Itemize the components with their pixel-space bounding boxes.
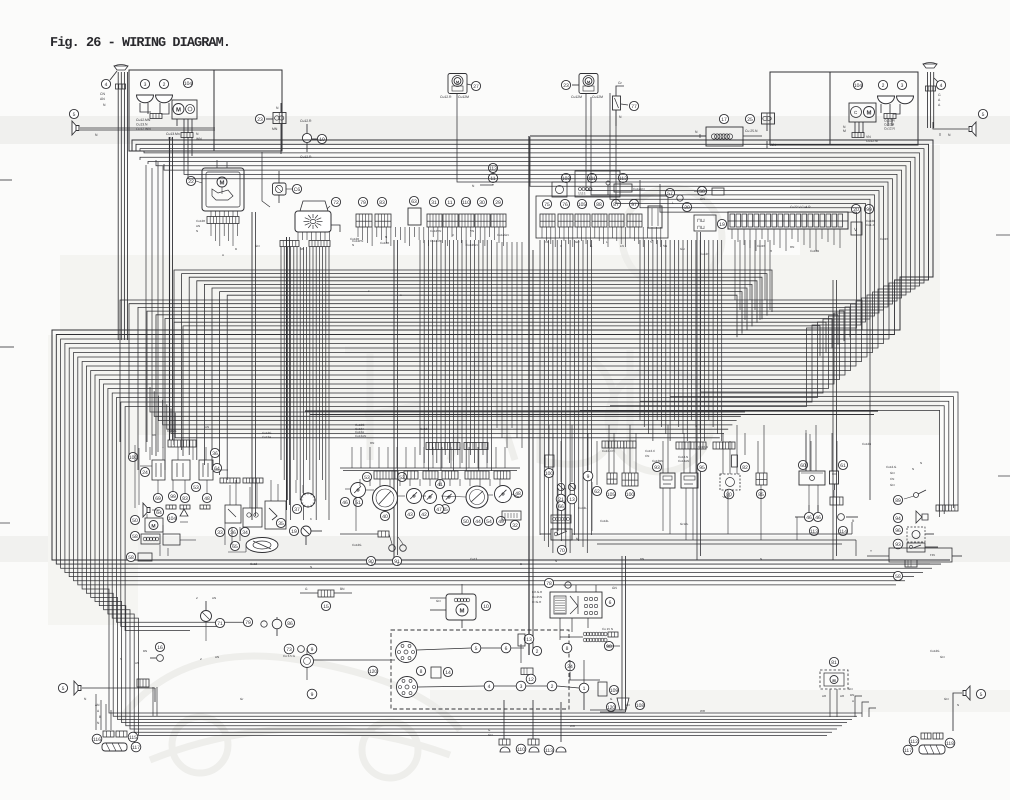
box 60	[798, 460, 807, 469]
svg-text:13: 13	[569, 497, 575, 503]
svg-text:27: 27	[473, 84, 479, 90]
wire relay row outputs	[557, 488, 559, 531]
svg-text:109: 109	[610, 688, 619, 694]
fuse 3	[199, 460, 213, 480]
device 32	[502, 511, 521, 520]
frame divider right	[829, 72, 831, 145]
strip pin drops	[731, 229, 733, 239]
wire 22 leads up	[216, 160, 218, 168]
svg-text:90: 90	[368, 559, 374, 565]
underlay right mass	[800, 145, 940, 390]
wiper motor box right	[849, 103, 876, 122]
svg-text:Cu4R: Cu4R	[757, 244, 766, 248]
svg-text:GN: GN	[680, 247, 685, 251]
frame 103 group	[575, 171, 620, 197]
svg-text:57: 57	[667, 191, 673, 197]
node 20 strip	[851, 204, 860, 213]
svg-text:54: 54	[486, 519, 492, 525]
svg-text:BN: BN	[340, 587, 345, 591]
lamp 3 left	[140, 79, 149, 88]
switch 72 body	[295, 211, 331, 232]
svg-text:23: 23	[563, 83, 569, 89]
wire BL vert pair	[152, 687, 154, 716]
wire 23-circle	[572, 84, 579, 86]
svg-text:3: 3	[901, 83, 904, 89]
wire 24 81	[570, 672, 600, 680]
device 66 resistors	[694, 215, 716, 231]
svg-text:6: 6	[609, 600, 612, 606]
device aux box	[163, 534, 180, 545]
wire horn4 lead	[110, 71, 117, 80]
wire heater leads	[461, 584, 463, 594]
fuse strip pins	[730, 214, 735, 227]
wire right column bundle	[700, 392, 958, 505]
svg-text:64: 64	[214, 466, 220, 472]
switch 35 big	[265, 501, 286, 529]
node 104 right	[853, 80, 862, 89]
svg-text:117: 117	[904, 748, 912, 754]
node 112	[618, 173, 627, 182]
svg-text:99: 99	[170, 494, 176, 500]
svg-text:BN: BN	[640, 557, 644, 561]
valve 94	[893, 513, 902, 522]
svg-text:N: N	[555, 559, 557, 563]
resistor 98	[583, 632, 587, 636]
svg-text:⌇⌇⌇⌇: ⌇⌇⌇⌇	[578, 191, 586, 196]
steering column oval 65	[246, 538, 278, 553]
wire pair right mid	[832, 280, 834, 560]
svg-text:Cu12GN: Cu12GN	[466, 243, 478, 247]
svg-text:104: 104	[184, 81, 193, 87]
node 36 LL	[210, 448, 219, 457]
svg-text:Fig. 26 - WIRING DIAGRAM.: Fig. 26 - WIRING DIAGRAM.	[50, 36, 230, 51]
node 20 small	[682, 202, 691, 211]
svg-text:91: 91	[394, 559, 400, 565]
svg-text:Cx13.B: Cx13.B	[698, 445, 708, 449]
wire left edge stubs	[0, 179, 12, 181]
wiper motor box left	[172, 100, 197, 119]
node 103	[561, 173, 570, 182]
wire pair node57	[696, 232, 698, 560]
connector 87	[611, 199, 620, 208]
wire pair alternator	[621, 556, 623, 710]
svg-text:30: 30	[479, 200, 485, 206]
svg-text:58: 58	[895, 574, 901, 580]
svg-text:3: 3	[144, 82, 147, 88]
svg-text:36: 36	[212, 451, 218, 457]
distributor side	[397, 677, 418, 698]
svg-text:Cu12B: Cu12B	[810, 249, 819, 253]
device 117 BL	[102, 743, 127, 751]
device 15	[318, 590, 334, 597]
svg-text:104: 104	[854, 83, 863, 89]
svg-text:BN: BN	[300, 247, 304, 251]
svg-text:58: 58	[128, 555, 134, 561]
device 82	[740, 462, 749, 471]
wire bundle V4	[639, 240, 641, 420]
wire C6 leads	[278, 171, 280, 183]
svg-text:Cu12VN: Cu12VN	[430, 239, 441, 243]
svg-text:Cu12.MN: Cu12.MN	[136, 118, 151, 122]
svg-text:61: 61	[840, 463, 846, 469]
svg-text:CN: CN	[645, 454, 649, 458]
svg-text:Cx.25N: Cx.25N	[532, 595, 542, 599]
svg-text:12: 12	[528, 677, 534, 683]
wire heavy pair left	[169, 137, 171, 440]
node 100 R	[544, 468, 553, 477]
resistor 13	[518, 634, 525, 646]
svg-text:BN: BN	[143, 649, 147, 653]
svg-text:72: 72	[333, 200, 339, 206]
svg-text:50: 50	[463, 519, 469, 525]
svg-text:97: 97	[631, 202, 637, 208]
lamp 2 right	[878, 80, 887, 89]
wire 81 drops	[829, 689, 831, 717]
nodes row LL	[153, 493, 162, 502]
speaker 5 right	[969, 122, 976, 136]
svg-text:Cu12M: Cu12M	[458, 95, 469, 99]
connector block horn right	[926, 86, 936, 91]
wire lamp drops	[140, 103, 151, 112]
svg-text:112: 112	[910, 739, 918, 745]
svg-text:GN: GN	[890, 483, 895, 487]
wire ign	[311, 530, 322, 532]
motor 50	[130, 515, 139, 524]
svg-text:17: 17	[721, 117, 727, 123]
wire bundle V3	[539, 240, 541, 535]
wire 17 right	[743, 135, 762, 137]
connector 6 tall	[648, 206, 662, 228]
svg-text:44: 44	[475, 519, 481, 525]
connector 63 tall	[409, 196, 418, 205]
frame right connector group	[536, 196, 668, 238]
ignition coil	[301, 655, 314, 668]
svg-text:LO.G.R: LO.G.R	[532, 590, 543, 594]
wire 72 drops	[297, 232, 299, 240]
svg-text:32: 32	[512, 523, 518, 529]
svg-text:Cu12: Cu12	[250, 562, 258, 566]
wire gauge links	[366, 489, 374, 491]
svg-text:46: 46	[806, 515, 812, 521]
svg-text:Cu12G: Cu12G	[352, 543, 362, 547]
svg-text:Cu12GN: Cu12GN	[497, 233, 509, 237]
connector 58b	[905, 560, 917, 567]
wire BR risers	[855, 696, 862, 717]
svg-text:43: 43	[407, 512, 413, 518]
svg-text:29: 29	[495, 200, 501, 206]
node 72	[331, 197, 340, 206]
svg-text:82: 82	[742, 465, 748, 471]
connector strip 22	[207, 217, 239, 224]
svg-text:70: 70	[559, 548, 565, 554]
node 27	[471, 81, 480, 90]
svg-text:WR: WR	[570, 724, 576, 728]
switch 70	[551, 529, 572, 540]
device 25	[745, 114, 754, 123]
svg-text:73: 73	[286, 647, 292, 653]
node 104 LL	[167, 513, 176, 522]
box 61	[838, 460, 847, 469]
lamp symbol 73-9	[298, 646, 305, 653]
svg-text:5: 5	[980, 692, 983, 698]
lamp 21	[557, 483, 564, 490]
wire 27-circle	[467, 84, 471, 85]
svg-text:8: 8	[566, 646, 569, 652]
svg-text:Cu12B: Cu12B	[862, 442, 871, 446]
svg-text:Cu13BN: Cu13BN	[652, 459, 663, 463]
svg-text:Cu13.N: Cu13.N	[136, 123, 148, 127]
wire BL drops	[95, 694, 97, 730]
node 111	[587, 173, 596, 182]
svg-text:24: 24	[142, 470, 148, 476]
speedometer 40	[373, 486, 398, 511]
gauge 42	[424, 491, 437, 504]
svg-text:AN: AN	[205, 425, 209, 429]
svg-text:Cu12M: Cu12M	[592, 95, 603, 99]
speaker 5 BL	[74, 681, 81, 695]
svg-text:Cu13A: Cu13A	[262, 435, 271, 439]
nodes 90 91	[366, 556, 375, 565]
wire speaker BL	[82, 687, 155, 689]
connector strips upper cluster	[426, 443, 460, 450]
svg-text:1: 1	[583, 686, 586, 692]
switch 89	[893, 495, 902, 504]
svg-text:33: 33	[217, 530, 223, 536]
wire plugs drop	[503, 700, 505, 739]
wire regulator drops	[559, 618, 561, 640]
bulb 71	[201, 611, 212, 622]
connector 100b R	[622, 473, 638, 486]
svg-text:M: M	[460, 607, 465, 614]
gauge 49	[495, 486, 512, 503]
fuel gauge 47	[466, 486, 488, 508]
svg-text:77: 77	[631, 104, 637, 110]
svg-text:25: 25	[747, 117, 753, 123]
switch 33	[225, 505, 241, 523]
scan tint band 1	[0, 116, 1010, 144]
svg-text:83: 83	[379, 200, 385, 206]
wire 22 drops	[210, 211, 212, 217]
svg-text:79: 79	[360, 200, 366, 206]
flasher 81 dashed	[820, 670, 848, 689]
svg-text:93: 93	[654, 465, 660, 471]
svg-text:N: N	[310, 565, 312, 569]
svg-text:CN: CN	[890, 477, 894, 481]
svg-text:2: 2	[163, 82, 166, 88]
svg-text:Z: Z	[196, 596, 198, 600]
wire dashed box rows	[417, 648, 471, 650]
device 117 BR	[919, 745, 945, 754]
svg-text:35: 35	[278, 521, 284, 527]
wire 70 leads	[540, 533, 551, 535]
svg-text:88: 88	[596, 202, 602, 208]
frame headlamp left	[129, 70, 282, 151]
svg-text:AN: AN	[100, 97, 105, 101]
node 99 strip	[864, 204, 873, 213]
svg-text:CN: CN	[100, 92, 105, 96]
svg-text:11: 11	[447, 200, 452, 206]
svg-text:36: 36	[230, 530, 236, 536]
wiper motor 22 inner	[217, 177, 227, 187]
svg-text:13: 13	[526, 637, 532, 643]
svg-text:104: 104	[168, 516, 177, 522]
svg-text:AN: AN	[215, 655, 219, 659]
svg-text:9: 9	[311, 647, 314, 653]
svg-text:47: 47	[436, 507, 442, 513]
connector strip right col	[936, 505, 958, 511]
svg-text:5: 5	[73, 112, 76, 118]
svg-text:Cu12.WN: Cu12.WN	[136, 127, 151, 131]
connector 110	[461, 197, 470, 206]
svg-text:AN: AN	[196, 224, 200, 228]
wire 23L	[266, 118, 273, 120]
svg-text:10: 10	[483, 604, 489, 610]
node 23	[561, 80, 570, 89]
svg-text:60: 60	[800, 463, 806, 469]
node 24 LL	[140, 467, 149, 476]
connector strips under fuses	[220, 478, 240, 483]
svg-text:Z: Z	[200, 657, 202, 661]
svg-text:48: 48	[204, 496, 210, 502]
amp 80 dashed	[720, 474, 740, 490]
svg-text:95: 95	[699, 465, 705, 471]
svg-text:93: 93	[895, 542, 901, 548]
device 58 resistor	[130, 531, 139, 540]
svg-text:M: M	[151, 523, 155, 529]
watermark	[120, 188, 722, 778]
scan tint band 2	[0, 536, 1010, 562]
svg-text:Cu 15 N: Cu 15 N	[602, 627, 613, 631]
svg-text:Cu12.N: Cu12.N	[884, 127, 896, 131]
svg-text:3: 3	[520, 684, 523, 690]
speaker 5 BR	[963, 686, 970, 700]
frame right col	[889, 548, 952, 562]
svg-text:4: 4	[940, 83, 943, 89]
nodes 46 46 113 114	[804, 512, 813, 521]
svg-text:16: 16	[157, 645, 163, 651]
wire 77 up	[616, 86, 624, 96]
speaker 64	[143, 503, 150, 517]
svg-text:⊓⊔: ⊓⊔	[697, 225, 705, 231]
node 57	[665, 188, 674, 197]
wire right lamp to ground	[887, 119, 889, 127]
wire lowerleft mesh	[146, 514, 148, 518]
node 62	[592, 486, 601, 495]
wire 25 drop	[766, 124, 768, 131]
connector 79	[358, 197, 367, 206]
svg-text:115: 115	[129, 735, 137, 741]
svg-text:19: 19	[291, 529, 297, 535]
svg-text:79: 79	[245, 620, 251, 626]
wire bundle V1 switch72 drops	[280, 247, 282, 460]
wire band C	[120, 300, 862, 442]
svg-text:C+G.R: C+G.R	[532, 600, 542, 604]
svg-text:53: 53	[193, 485, 199, 491]
svg-text:4: 4	[105, 82, 108, 88]
svg-text:N: N	[957, 703, 959, 707]
scan tint band 3	[430, 690, 1010, 712]
connector 30	[477, 197, 486, 206]
switch 93b	[893, 539, 903, 549]
svg-text:Cu12A: Cu12A	[420, 427, 429, 431]
svg-text:23: 23	[257, 117, 263, 123]
node 56	[697, 186, 706, 195]
svg-text:Cu12R: Cu12R	[380, 241, 390, 245]
connector eq box	[137, 679, 149, 687]
connector strip gauges	[374, 471, 398, 479]
wire horn4 right lead	[934, 78, 938, 82]
svg-text:4: 4	[488, 684, 491, 690]
svg-text:Cu13.Mn: Cu13.Mn	[166, 132, 180, 136]
wire bundle strip drops	[734, 240, 736, 300]
connector block right lamps	[884, 114, 896, 119]
svg-text:75: 75	[544, 202, 550, 208]
wire speaker BR	[953, 693, 962, 731]
svg-text:GN: GN	[488, 733, 493, 737]
nodes in dashed box	[471, 643, 481, 653]
svg-text:42: 42	[421, 512, 427, 518]
svg-text:LN: LN	[620, 244, 624, 248]
relay 95	[697, 462, 706, 471]
wire bundle V2b	[496, 242, 498, 428]
svg-text:Cu13.C: Cu13.C	[645, 449, 656, 453]
device 66b coil	[556, 501, 565, 510]
connector strip fusebox	[168, 440, 196, 447]
wire main harness loop	[52, 140, 950, 560]
wire speaker5 right	[933, 122, 968, 129]
svg-text:99: 99	[866, 207, 872, 213]
svg-text:M: M	[843, 129, 846, 133]
svg-text:Cu13AN: Cu13AN	[355, 434, 366, 438]
svg-text:Cu12VN: Cu12VN	[430, 229, 441, 233]
switch 36b	[243, 508, 262, 527]
svg-text:Gr12L: Gr12L	[680, 522, 689, 526]
svg-text:GN: GN	[625, 703, 630, 707]
connector 83	[377, 197, 386, 206]
svg-text:RN: RN	[370, 441, 374, 445]
svg-text:Cu12R: Cu12R	[350, 237, 360, 241]
underlay central block	[60, 255, 940, 435]
svg-text:117: 117	[132, 745, 140, 751]
svg-text:"AMP": "AMP"	[722, 495, 731, 499]
svg-text:Cu12.R: Cu12.R	[440, 95, 452, 99]
device C6	[273, 183, 287, 195]
connector 76	[560, 199, 569, 208]
svg-text:M: M	[176, 106, 181, 113]
svg-text:31: 31	[431, 200, 437, 206]
svg-text:2: 2	[536, 649, 539, 655]
ignition 19	[301, 526, 311, 536]
device 96 dashed	[893, 525, 902, 534]
node 64 LL	[212, 463, 221, 472]
svg-text:GN: GN	[255, 244, 260, 248]
svg-text:69: 69	[155, 496, 161, 502]
node 9 R	[583, 471, 593, 481]
node 78	[544, 578, 553, 587]
node 16	[155, 642, 164, 651]
connector 31	[429, 197, 438, 206]
svg-text:108: 108	[636, 703, 645, 709]
wire wiper drops	[183, 119, 185, 133]
svg-text:Cu12L: Cu12L	[600, 519, 609, 523]
svg-text:62: 62	[594, 489, 600, 495]
connector block motor right	[852, 133, 864, 138]
wire cluster feeds left	[145, 165, 147, 452]
svg-text:A: A	[852, 699, 854, 703]
svg-text:GN: GN	[848, 687, 853, 691]
wire 60-61 feeds	[805, 430, 807, 471]
underlay left edge	[48, 335, 138, 625]
